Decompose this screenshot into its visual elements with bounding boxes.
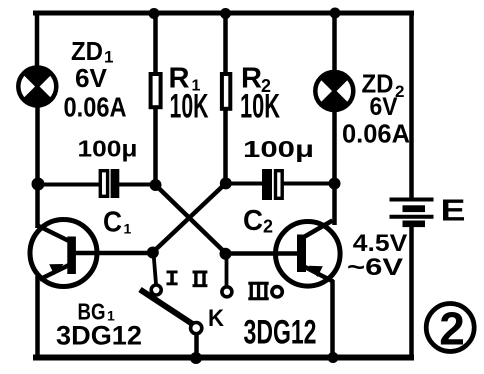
svg-text:~6V: ~6V xyxy=(347,254,403,281)
svg-text:6V: 6V xyxy=(370,93,398,121)
svg-text:2: 2 xyxy=(263,217,273,237)
svg-text:10K: 10K xyxy=(170,88,209,126)
svg-text:3DG12: 3DG12 xyxy=(56,321,142,351)
svg-text:6V: 6V xyxy=(75,63,108,93)
svg-text:3DG12: 3DG12 xyxy=(244,313,317,351)
svg-text:1: 1 xyxy=(124,221,132,237)
svg-text:4.5V: 4.5V xyxy=(353,230,408,257)
svg-text:ZD: ZD xyxy=(71,36,103,66)
svg-text:0.06A: 0.06A xyxy=(64,92,127,123)
svg-text:2: 2 xyxy=(439,303,465,355)
svg-text:K: K xyxy=(208,305,225,332)
svg-text:E: E xyxy=(441,193,466,228)
svg-text:10K: 10K xyxy=(240,88,280,126)
svg-text:0.06A: 0.06A xyxy=(342,119,410,149)
svg-text:C: C xyxy=(103,207,122,239)
svg-text:C: C xyxy=(243,205,263,237)
svg-text:100μ: 100μ xyxy=(78,136,138,162)
svg-text:100μ: 100μ xyxy=(243,136,314,162)
